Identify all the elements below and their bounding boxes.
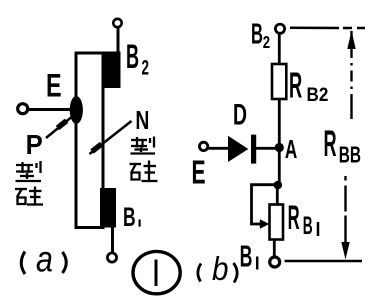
label B1 (structure)	[123, 202, 136, 232]
label B1 (circuit)	[240, 240, 253, 274]
wire B2 contact to terminal	[117, 28, 120, 52]
hanzi 型 (left)	[16, 161, 42, 181]
diode cathode bar	[251, 135, 256, 164]
svg-text:R: R	[324, 124, 337, 165]
wire E lead	[29, 108, 71, 111]
RBB dimension arrow up	[350, 31, 352, 119]
label RB2	[289, 66, 302, 106]
label B2 (structure)	[126, 37, 139, 76]
svg-text:2: 2	[263, 33, 271, 52]
svg-text:B: B	[303, 213, 313, 240]
wire E to diode	[208, 147, 228, 150]
svg-text:D: D	[233, 99, 247, 132]
diode D triangle	[228, 136, 248, 162]
label RB1	[288, 199, 300, 237]
terminal B2	[275, 24, 284, 33]
label RBB	[324, 124, 337, 165]
svg-text:N: N	[135, 106, 149, 134]
label B2	[251, 19, 263, 51]
resistor RB1	[270, 205, 284, 240]
wire B2 to RB2	[278, 34, 281, 65]
label (a)	[21, 252, 25, 275]
svg-text:2: 2	[142, 55, 150, 79]
svg-text:E: E	[46, 68, 62, 103]
wire diode to node A	[256, 147, 277, 150]
label E (structure)	[46, 68, 62, 103]
node A junction dot	[275, 143, 284, 152]
wire junction to RB1	[276, 185, 279, 205]
dashed reference line top	[290, 27, 365, 30]
svg-text:A: A	[285, 134, 297, 164]
reference line bottom	[285, 260, 363, 263]
label P	[26, 129, 43, 160]
svg-text:R: R	[289, 66, 302, 106]
wire RB1 to B1	[273, 240, 276, 258]
wire node A down	[278, 148, 281, 186]
label (b)	[198, 264, 201, 282]
wire B1 contact to terminal	[111, 227, 114, 252]
variable-resistance hook arrow	[252, 185, 277, 224]
terminal B1 (structure)	[107, 253, 116, 262]
terminal B2 (structure)	[113, 19, 121, 27]
leader N to bar	[90, 121, 132, 154]
svg-text:B: B	[251, 19, 263, 51]
svg-text:a: a	[36, 238, 53, 280]
hanzi 型 (right)	[131, 137, 156, 154]
RBB dimension arrow down	[344, 176, 346, 181]
label E (circuit)	[192, 154, 206, 191]
B2 contact (black bar)	[104, 52, 121, 89]
terminal E	[199, 142, 207, 150]
emitter P-N junction (black oval)	[70, 96, 83, 124]
silicon bar body (a)	[76, 53, 103, 228]
hanzi 硅 (left)	[15, 187, 43, 206]
svg-text:E: E	[192, 154, 206, 191]
svg-text:b: b	[212, 251, 229, 288]
svg-text:BB: BB	[339, 143, 361, 169]
svg-text:R: R	[288, 199, 300, 237]
label A	[285, 134, 297, 164]
hanzi 硅 (right)	[130, 161, 158, 183]
svg-text:B: B	[126, 37, 139, 76]
svg-text:P: P	[26, 129, 43, 160]
resistor RB2	[272, 64, 286, 99]
B1 contact (black bar)	[100, 188, 116, 228]
leader P to oval	[46, 118, 71, 139]
terminal B1	[270, 257, 280, 267]
figure number circle 1	[133, 251, 180, 293]
junction dot above RB1	[274, 181, 283, 190]
terminal E (structure)	[18, 104, 28, 114]
svg-text:B: B	[123, 202, 136, 232]
label N	[135, 106, 149, 134]
svg-text:B2: B2	[307, 84, 329, 105]
svg-text:B: B	[240, 240, 253, 274]
wire RB2 to node A	[278, 99, 281, 148]
label D	[233, 99, 247, 132]
